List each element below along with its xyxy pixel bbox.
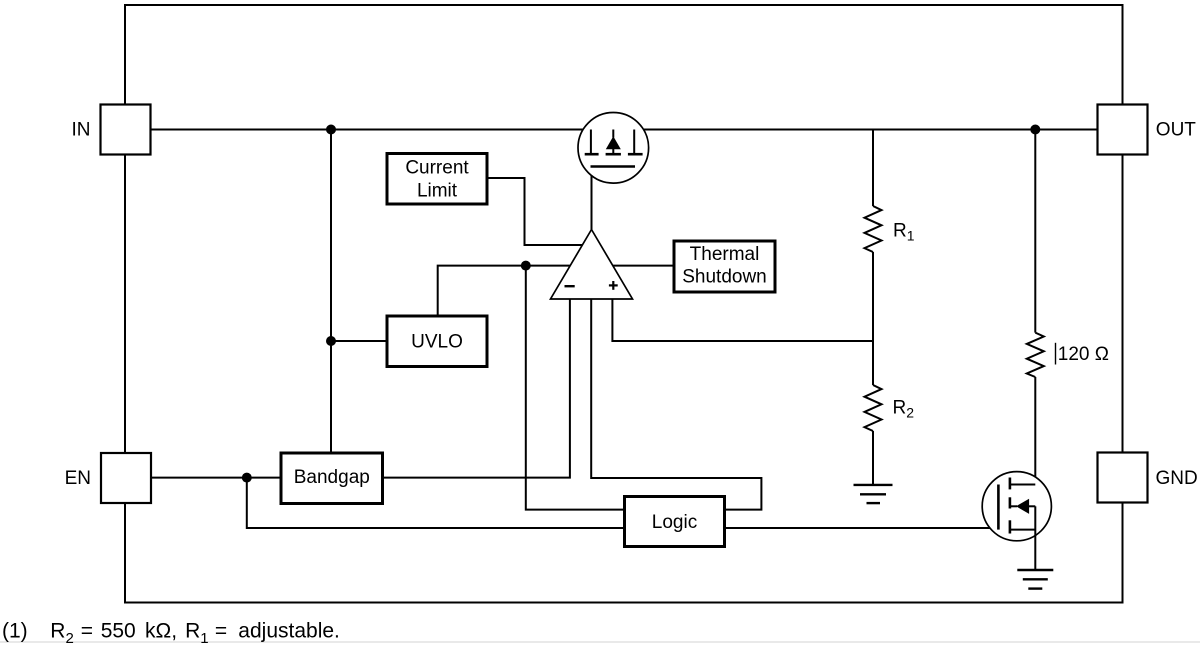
wire 120ohm to Q2 drain xyxy=(1034,377,1036,485)
svg-text:Current: Current xyxy=(405,158,469,179)
ground below Q2 xyxy=(1017,570,1053,589)
op-amp plus sign xyxy=(609,281,618,290)
page rule xyxy=(0,641,1200,643)
transistor Q1 PMOS pass element circle xyxy=(578,113,649,184)
Q2 body arrow xyxy=(1016,499,1029,514)
wire error amp minus input from Bandgap xyxy=(383,299,570,478)
Q1 gate bar xyxy=(591,165,636,168)
pin EN xyxy=(101,453,151,503)
wire IN rail to OUT xyxy=(151,129,1098,131)
Q1 drain stub xyxy=(633,130,635,154)
wire EN branch to Logic xyxy=(247,478,625,528)
Q2 drain bend xyxy=(1011,484,1035,486)
block Bandgap xyxy=(281,453,383,504)
node junction dot error amp input net xyxy=(521,261,531,271)
block UVLO xyxy=(387,316,487,367)
svg-text:Logic: Logic xyxy=(652,512,697,533)
wire error amp middle pin to Logic xyxy=(591,299,761,510)
block Logic xyxy=(625,497,725,547)
svg-text:550: 550 xyxy=(101,620,136,643)
node A junction dot on IN rail xyxy=(326,125,336,135)
Q1 body arrow xyxy=(606,136,621,149)
footnote text xyxy=(50,620,340,645)
block Thermal Shutdown xyxy=(674,241,775,292)
Q2 gate bar xyxy=(997,485,1000,530)
Q1 arrow to channel stub xyxy=(612,148,614,153)
wire R1 top xyxy=(872,130,874,207)
wire Logic to Q2 gate xyxy=(725,527,999,529)
wire UVLO top to error amp inverting node xyxy=(438,266,571,316)
resistor 120ohm xyxy=(1027,333,1044,377)
wire UVLO input xyxy=(331,340,387,342)
transistor Q2 NMOS circle xyxy=(982,472,1051,541)
svg-text:IN: IN xyxy=(72,120,91,141)
wire Current Limit to error amp xyxy=(487,178,582,245)
wire EN to Bandgap xyxy=(151,477,281,479)
svg-text:adjustable.: adjustable. xyxy=(238,620,340,643)
svg-text:Limit: Limit xyxy=(417,181,458,202)
wire error amp plus input feedback tap xyxy=(612,299,873,341)
svg-text:=: = xyxy=(81,620,93,643)
resistor R1 xyxy=(865,206,882,252)
svg-text:EN: EN xyxy=(65,468,91,489)
wire error amp output to pass gate xyxy=(591,167,593,230)
svg-text:OUT: OUT xyxy=(1156,119,1197,140)
pin OUT xyxy=(1098,105,1148,155)
node junction dot OUT rail xyxy=(1030,125,1040,135)
op-amp U1 error amplifier xyxy=(551,230,633,300)
svg-text:kΩ,: kΩ, xyxy=(145,620,177,643)
Q1 body stub xyxy=(612,130,614,138)
chip outline xyxy=(125,5,1123,603)
svg-text:120 Ω: 120 Ω xyxy=(1058,344,1109,365)
ground below R2 xyxy=(854,485,893,503)
svg-text:UVLO: UVLO xyxy=(411,331,463,352)
wire left branch from IN rail down to Bandgap xyxy=(330,130,332,454)
svg-text:Shutdown: Shutdown xyxy=(682,267,767,288)
wire node down to Logic xyxy=(526,266,625,510)
Q2 source bend xyxy=(1011,529,1035,531)
block Current Limit xyxy=(387,154,487,205)
wire R2 to ground xyxy=(872,431,874,485)
svg-text:(1): (1) xyxy=(2,620,28,643)
svg-text:Thermal: Thermal xyxy=(690,244,760,265)
svg-text:=: = xyxy=(215,620,227,643)
wire 120ohm branch xyxy=(1034,130,1036,333)
node junction dot UVLO branch xyxy=(326,336,336,346)
Q2 body to source vertical xyxy=(1029,505,1036,507)
node junction dot EN net xyxy=(242,473,252,483)
svg-text:GND: GND xyxy=(1156,468,1198,489)
resistor R2 xyxy=(865,385,882,431)
wire error amp to Thermal Shutdown xyxy=(613,265,674,267)
wire R1 to R2 xyxy=(872,252,874,385)
Q2 channel segments xyxy=(1009,478,1012,534)
svg-text:Bandgap: Bandgap xyxy=(294,467,370,488)
pin IN xyxy=(101,105,151,155)
Q2 source to ground xyxy=(1034,506,1036,570)
Q1 channel segments xyxy=(585,153,643,156)
Q1 source stub xyxy=(590,130,592,154)
resistor 120ohm label tick xyxy=(1055,343,1057,365)
pin GND xyxy=(1098,453,1148,503)
op-amp minus sign xyxy=(565,285,575,287)
Q2 body line from channel xyxy=(1010,505,1017,507)
